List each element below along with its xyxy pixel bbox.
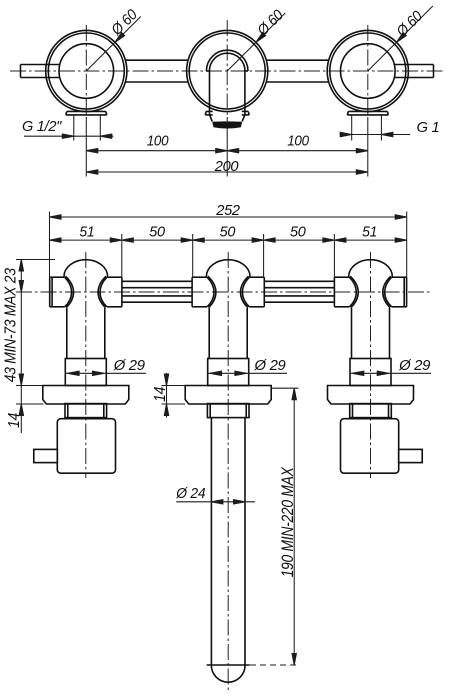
right handle cap circle: [341, 44, 396, 99]
centerline right valve vertical: [370, 252, 372, 478]
svg-text:50: 50: [149, 224, 165, 241]
handle lever right: [399, 449, 423, 462]
dimension 100 left: [86, 149, 227, 153]
left handle cap circle: [59, 44, 114, 99]
valve body left: [50, 260, 122, 386]
nut left: [65, 404, 107, 418]
right inlet pipe G1 extension lines: [352, 116, 382, 141]
svg-text:Ø 29: Ø 29: [254, 357, 287, 374]
svg-text:G 1: G 1: [417, 119, 440, 136]
wall flange middle: [185, 386, 271, 405]
svg-text:100: 100: [287, 133, 309, 150]
extension lines left chain: [16, 260, 55, 405]
spout end dome: [211, 665, 245, 682]
nut right: [350, 404, 392, 418]
left inlet pipe G1/2 extension lines: [74, 116, 101, 141]
dimension line left chain: [19, 260, 23, 434]
spout tube (front view): [206, 71, 248, 115]
svg-text:51: 51: [79, 224, 94, 241]
middle escutcheon outer circle: [187, 30, 268, 111]
svg-text:43 MIN-73 MAX 23: 43 MIN-73 MAX 23: [2, 268, 19, 382]
aerator dark band: [212, 121, 242, 128]
svg-text:50: 50: [290, 224, 306, 241]
left mounting base (front view): [66, 111, 107, 115]
wall flange left: [43, 386, 129, 405]
nut middle: [207, 404, 249, 418]
dimension line 190-220: [292, 388, 296, 665]
right handle lever stub (front view): [394, 65, 433, 78]
centerline left valve vertical: [85, 252, 87, 478]
svg-text:Ø 24: Ø 24: [175, 485, 205, 502]
dimension diameter 29 middle: [208, 371, 287, 375]
dimension G 1/2 line: [24, 134, 114, 138]
leader and label diameter 60 left: [86, 17, 141, 72]
dimension diameter 29 left: [65, 371, 146, 375]
extension line left center: [85, 117, 87, 177]
svg-text:51: 51: [362, 224, 377, 241]
middle mounting base tabs (front view): [205, 111, 249, 115]
extension lines middle 14: [162, 386, 186, 405]
centerline vertical left circle: [85, 25, 87, 116]
svg-text:14: 14: [6, 413, 23, 428]
left escutcheon outer circle: [46, 30, 127, 111]
handle body right: [341, 419, 399, 474]
svg-text:Ø 29: Ø 29: [398, 357, 431, 374]
handle body left: [57, 419, 115, 474]
centerline middle valve vertical: [227, 252, 229, 690]
extension line spout top: [271, 387, 299, 389]
right escutcheon inner ring: [330, 33, 406, 109]
right escutcheon outer circle: [327, 30, 408, 111]
dimension diameter 29 right: [350, 371, 431, 375]
svg-text:14: 14: [152, 387, 169, 402]
svg-text:200: 200: [214, 158, 239, 175]
dimension diameter 24: [176, 500, 255, 504]
connecting pipe middle-right: [264, 281, 334, 302]
svg-text:100: 100: [147, 133, 169, 150]
centerline horizontal top view: [10, 70, 444, 72]
spout arch inner line: [209, 53, 245, 71]
valve body right: [334, 260, 406, 386]
extension line middle center: [226, 117, 228, 177]
aerator outline: [210, 115, 245, 122]
extension line spout bottom dashed: [250, 664, 300, 666]
extension lines overall width: [50, 212, 407, 278]
wall bar between left and middle escutcheons: [125, 60, 188, 82]
valve body middle: [192, 260, 264, 386]
dimension 200: [86, 170, 368, 174]
dimension 252: [50, 215, 407, 219]
wall bar between middle and right escutcheons: [266, 60, 328, 82]
dimension chain 51-50-50-50-51: [50, 238, 407, 242]
svg-text:190 MIN-220 MAX: 190 MIN-220 MAX: [279, 466, 297, 577]
connecting pipe left-middle: [122, 281, 192, 302]
middle escutcheon inner ring: [189, 33, 265, 109]
dimension line middle 14: [164, 373, 168, 418]
spout arch outer (front view): [206, 50, 248, 71]
centerline vertical middle circle: [226, 20, 228, 116]
extension line right center: [367, 117, 369, 177]
svg-text:252: 252: [215, 202, 240, 219]
svg-text:G 1/2": G 1/2": [22, 118, 62, 135]
wall flange right: [328, 386, 414, 405]
centerline vertical right circle: [367, 25, 369, 116]
handle lever left: [34, 449, 58, 462]
leader and label diameter 60 right: [368, 6, 433, 71]
dimension 100 right: [227, 149, 368, 153]
left handle lever stub (front view): [21, 65, 60, 78]
leader and label diameter 60 middle: [227, 13, 285, 71]
left escutcheon inner ring: [48, 33, 124, 109]
svg-text:50: 50: [220, 224, 236, 241]
centerline pipe axis lower view: [16, 291, 432, 293]
dimension G 1 line: [340, 132, 410, 136]
svg-text:Ø 29: Ø 29: [113, 357, 146, 374]
right mounting base (front view): [347, 111, 388, 115]
spout tube side view: [207, 417, 250, 665]
